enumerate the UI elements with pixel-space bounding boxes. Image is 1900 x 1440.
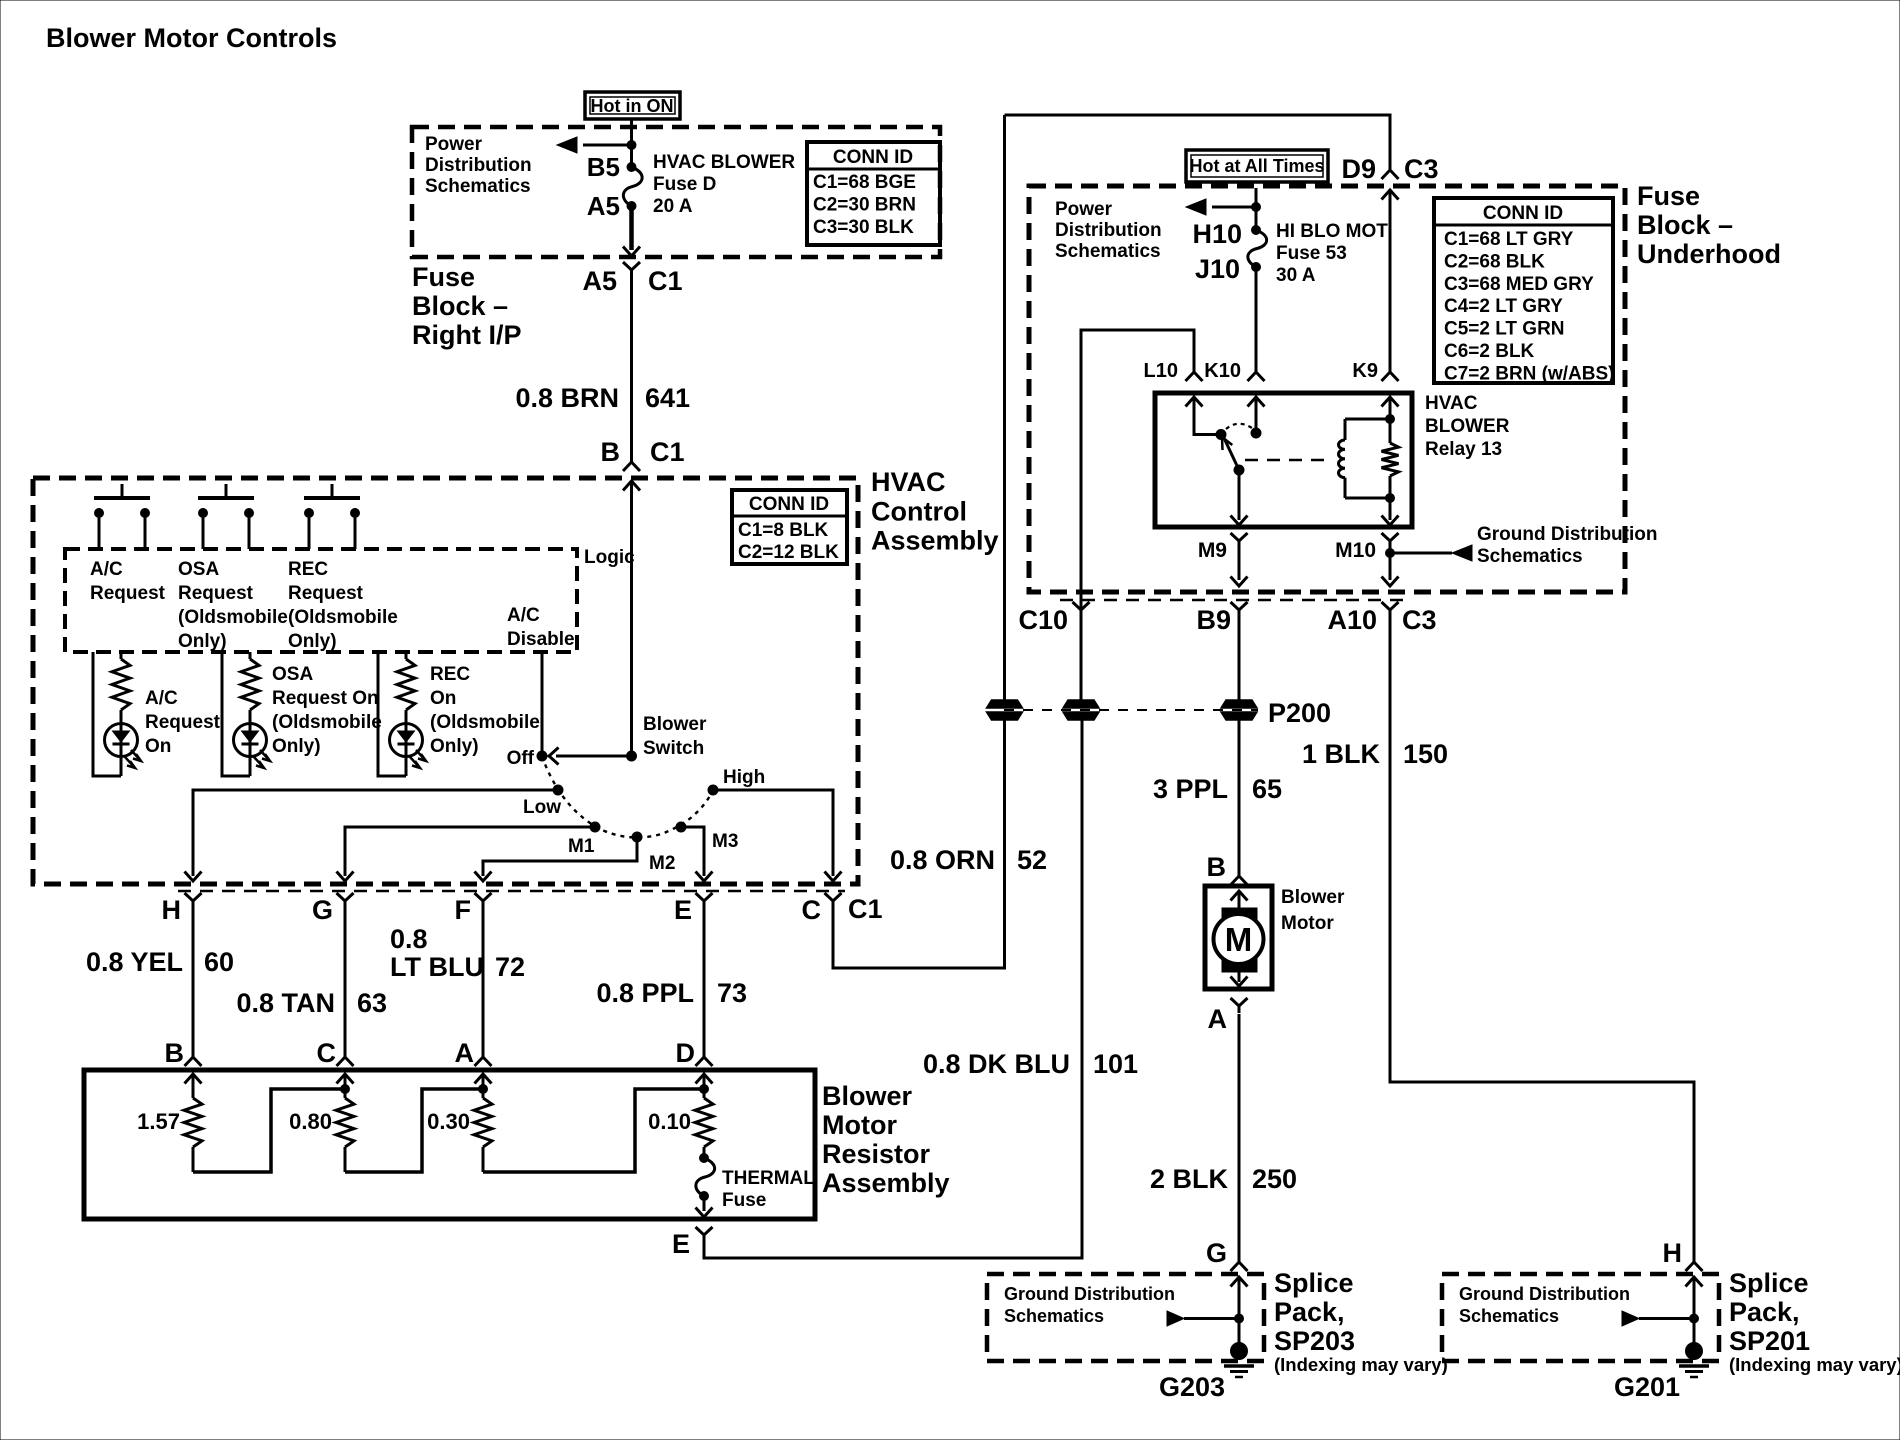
svg-text:0.8 YEL: 0.8 YEL <box>86 947 183 977</box>
svg-text:F: F <box>455 895 472 925</box>
off-page reference arrow (SP201) <box>1639 1317 1694 1320</box>
svg-text:641: 641 <box>645 383 690 413</box>
svg-text:63: 63 <box>357 988 387 1018</box>
relay coil branch top <box>1382 397 1399 407</box>
fuse: HI BLO MOT Fuse 53 30 A <box>1248 230 1267 267</box>
svg-text:1 BLK: 1 BLK <box>1302 739 1381 769</box>
connector pin B (blower motor fork) <box>1231 869 1248 885</box>
male connector arrow at fuse block boundary <box>623 247 640 257</box>
svg-text:A5: A5 <box>587 191 620 221</box>
svg-text:A5: A5 <box>582 266 617 296</box>
resistor element 0.30 ohm <box>474 1074 492 1172</box>
relay pin arrow L10 (inside) <box>1186 397 1203 407</box>
svg-text:(Indexing may vary): (Indexing may vary) <box>1274 1354 1448 1375</box>
svg-text:0.10: 0.10 <box>648 1109 691 1134</box>
svg-text:D: D <box>676 1038 696 1068</box>
wire 0.8 LT BLU circuit 72 (F to resistor A) <box>482 908 485 1057</box>
svg-text:Blower Motor Controls: Blower Motor Controls <box>46 23 337 53</box>
wire: LED branch 3 return <box>378 652 406 776</box>
svg-text:E: E <box>672 1229 690 1259</box>
connector pin G (female fork) <box>337 893 354 908</box>
svg-text:60: 60 <box>204 947 234 977</box>
dashed box: Power Distribution Schematics (Fuse Block - Right I/P) <box>412 127 940 257</box>
blower switch feed junction dot <box>627 751 637 761</box>
svg-text:Ground Distribution: Ground Distribution <box>1459 1284 1630 1304</box>
svg-text:0.30: 0.30 <box>427 1109 470 1134</box>
svg-text:A: A <box>1208 1004 1228 1034</box>
svg-text:C1: C1 <box>650 437 685 467</box>
svg-text:Fuse: Fuse <box>722 1190 766 1211</box>
relay coil suppression resistor <box>1389 419 1392 443</box>
ground G203 <box>1224 1343 1254 1378</box>
wire: Low speed output to pin H <box>193 790 558 876</box>
svg-text:Hot at All Times: Hot at All Times <box>1189 156 1324 176</box>
svg-text:H: H <box>162 895 182 925</box>
svg-text:H: H <box>1663 1238 1683 1268</box>
connector pin M9 (female fork) <box>1231 533 1248 548</box>
connector pin A10 (female fork) <box>1382 602 1399 617</box>
wire: splice SP203 ground lead <box>1238 1277 1241 1345</box>
connector pin M10 (female fork) <box>1382 533 1399 548</box>
wire: switch wiper feed with arrow to Off <box>556 755 632 758</box>
svg-text:C1=68 BGEC2=30 BRNC3=30 BLK: C1=68 BGEC2=30 BRNC3=30 BLK <box>813 172 916 238</box>
wire: A/C Disable to switch Off contact <box>541 652 544 756</box>
svg-text:C3: C3 <box>1402 605 1437 635</box>
connector pin D (resistor assembly, female fork) <box>696 1050 713 1066</box>
switch SW1 (momentary contact) <box>94 484 150 549</box>
svg-text:SplicePack,SP203: SplicePack,SP203 <box>1274 1268 1355 1356</box>
junction dot SP201 <box>1690 1314 1699 1323</box>
wire: M10 to A10 with ground reference tap <box>1389 548 1392 580</box>
svg-text:B: B <box>1207 852 1227 882</box>
wire 0.8 BRN circuit 641 <box>630 277 633 455</box>
switch contact Off <box>537 751 547 761</box>
svg-text:65: 65 <box>1252 774 1282 804</box>
wire: fuse output A5 down to connector <box>629 206 634 250</box>
svg-text:CONN ID: CONN ID <box>833 147 913 168</box>
wire 0.8 TAN circuit 63 (G to resistor C) <box>344 908 347 1057</box>
wire: C3 feed to relay K9 <box>1389 190 1392 371</box>
wire: M9 to B9 <box>1238 548 1241 580</box>
CONN ID table (Fuse Block - Right I/P) <box>807 142 940 245</box>
connector A5/C1 (female fork) <box>623 262 640 277</box>
svg-text:C10: C10 <box>1018 605 1068 635</box>
svg-text:0.80: 0.80 <box>289 1109 332 1134</box>
svg-text:B: B <box>165 1038 185 1068</box>
wire: High output to pin C <box>713 790 833 876</box>
wire: relay common to switch pivot <box>1194 397 1218 435</box>
male connector arrow below HVAC boundary <box>623 481 640 491</box>
connector pin H (female fork) <box>185 893 202 908</box>
wire: series link resistor 0.80 to 0.30 <box>345 1089 483 1172</box>
junction dot at fuse feed <box>1252 203 1261 212</box>
svg-text:G: G <box>312 895 333 925</box>
svg-text:73: 73 <box>717 978 747 1008</box>
wire: Hot in ON feed to fuse terminal B5 <box>630 119 633 167</box>
CONN ID table (Fuse Block - Underhood) <box>1434 198 1613 383</box>
svg-text:72: 72 <box>495 952 525 982</box>
dashed pass-through line P200 <box>1004 709 1258 711</box>
wire: battery feed bus (top) <box>1005 115 1391 164</box>
wire: M1 output to pin G <box>345 827 595 876</box>
connector B/C1 into HVAC Control Assembly (female fork) <box>623 455 640 471</box>
connector pin G (splice fork) <box>1231 1255 1248 1271</box>
svg-text:Schematics: Schematics <box>1004 1306 1104 1326</box>
junction dot SP203 <box>1235 1314 1244 1323</box>
connector pin K9 (relay, female fork) <box>1382 365 1399 381</box>
connector D9/C3 (female fork) <box>1382 163 1399 179</box>
dashed box: Ground Distribution Schematics (SP203) <box>987 1274 1264 1361</box>
fuse: HVAC BLOWER Fuse D 20 A <box>623 167 642 206</box>
svg-text:M10: M10 <box>1335 539 1376 562</box>
svg-text:M1: M1 <box>568 836 595 857</box>
box: HVAC Blower Relay 13 <box>1155 393 1412 527</box>
svg-text:M: M <box>1225 921 1253 958</box>
male connector arrow below underhood boundary <box>1382 190 1399 200</box>
off-page reference arrow (ground distribution) <box>1390 552 1452 555</box>
svg-text:K10: K10 <box>1204 360 1241 382</box>
dashed box: Fuse Block - Underhood <box>1029 186 1625 592</box>
resistor element 0.10 ohm <box>695 1074 713 1157</box>
connector pin F (female fork) <box>475 893 492 908</box>
svg-text:M9: M9 <box>1198 539 1227 562</box>
wire: relay K10 to normally-open contact <box>1255 397 1258 430</box>
blower switch wiper arc (dashed) <box>542 756 713 838</box>
svg-text:E: E <box>674 895 692 925</box>
junction dot A5 <box>627 202 636 211</box>
svg-text:C: C <box>802 895 822 925</box>
wire: series link resistor 1.57 to 0.80 <box>193 1089 345 1172</box>
relay movable contact (wiper arm) <box>1224 438 1239 470</box>
relay switch pivot dot <box>1216 430 1226 440</box>
junction dot coil bottom <box>1386 494 1395 503</box>
svg-text:A: A <box>455 1038 475 1068</box>
connector pin E (female fork) <box>696 893 713 908</box>
switch SW2 (momentary contact) <box>198 484 254 549</box>
connector line (HVAC bottom connector row) <box>178 890 845 893</box>
connector pin H (splice fork) <box>1686 1255 1703 1271</box>
svg-text:L10: L10 <box>1144 360 1178 382</box>
relay contact travel arc (dashed) <box>1226 424 1252 429</box>
relay fixed contact dot <box>1251 428 1261 438</box>
junction dot at resistor A tap <box>479 1085 488 1094</box>
svg-text:G: G <box>1206 1238 1227 1268</box>
off-page reference arrow (SP203) <box>1184 1317 1239 1320</box>
svg-text:3 PPL: 3 PPL <box>1153 774 1228 804</box>
connector pin L10 (relay, female fork) <box>1186 365 1203 381</box>
svg-text:1.57: 1.57 <box>137 1109 180 1134</box>
wire: splice SP201 ground lead <box>1693 1277 1696 1345</box>
dashed box: logic block <box>65 549 577 652</box>
svg-text:0.8 DK BLU: 0.8 DK BLU <box>923 1049 1070 1079</box>
svg-text:C3: C3 <box>1404 154 1439 184</box>
svg-text:Logic: Logic <box>584 547 635 568</box>
wire: LED branch 2 return <box>222 652 250 776</box>
svg-text:G201: G201 <box>1614 1372 1680 1402</box>
wire: logic feed (B/C1 to blower switch) <box>630 481 633 756</box>
svg-text:SplicePack,SP201: SplicePack,SP201 <box>1729 1268 1810 1356</box>
switch SW3 (momentary contact) <box>304 484 360 549</box>
svg-text:Low: Low <box>523 797 561 818</box>
svg-text:B: B <box>601 437 621 467</box>
svg-text:Ground Distribution: Ground Distribution <box>1004 1284 1175 1304</box>
svg-text:THERMAL: THERMAL <box>722 1168 815 1189</box>
connector pin C (resistor assembly, female fork) <box>337 1050 354 1066</box>
wire: fuse 53 feed <box>1255 188 1258 230</box>
junction dot at resistor C tap <box>341 1085 350 1094</box>
wire: fuse 53 output to relay K10 <box>1255 267 1258 371</box>
svg-text:0.8 BRN: 0.8 BRN <box>515 383 619 413</box>
LED indicator OSA Request On <box>234 710 271 776</box>
wire: C10 to P200 segment <box>1080 616 1083 700</box>
connector pin K10 (relay, female fork) <box>1248 365 1265 381</box>
svg-text:CONN ID: CONN ID <box>749 494 829 515</box>
inline connector P200 <box>987 700 1023 720</box>
switch contact M1 <box>590 822 600 832</box>
LED indicator A/C Request On <box>105 710 142 776</box>
svg-text:Off: Off <box>507 748 535 769</box>
svg-text:C: C <box>317 1038 337 1068</box>
svg-text:150: 150 <box>1403 739 1448 769</box>
wire: LED branch 1 return <box>93 652 121 776</box>
junction dot B5 <box>627 141 636 150</box>
svg-text:Schematics: Schematics <box>1477 546 1583 567</box>
svg-text:Ground Distribution: Ground Distribution <box>1477 524 1657 545</box>
connector pin C10 (female fork) <box>1073 602 1090 617</box>
box: Blower Motor Resistor Assembly <box>84 1070 815 1219</box>
wire: coil return to M10 <box>1389 498 1392 520</box>
connector pin C (female fork) <box>825 893 842 908</box>
svg-text:52: 52 <box>1017 845 1047 875</box>
wire 0.8 PPL circuit 73 (E to resistor D) <box>703 908 706 1057</box>
thermal fuse (resistor assembly) <box>700 1154 709 1163</box>
relay pin arrow K10 (inside) <box>1248 397 1265 407</box>
switch contact M2 <box>632 832 642 842</box>
off-page reference arrow (Power Distribution) <box>583 144 632 147</box>
svg-text:H10: H10 <box>1192 219 1242 249</box>
wire 0.8 YEL circuit 60 (H to resistor B) <box>192 908 195 1057</box>
svg-text:Hot in ON: Hot in ON <box>591 96 674 116</box>
label box: Hot at All Times <box>1186 150 1328 182</box>
svg-text:J10: J10 <box>1195 254 1240 284</box>
svg-text:B5: B5 <box>587 152 620 182</box>
svg-text:101: 101 <box>1093 1049 1138 1079</box>
relay wiper contact dot <box>1234 465 1244 475</box>
wire: M3 output to pin E <box>681 827 704 876</box>
wire 1 BLK circuit 150 (A10 to splice pack SP201) <box>1390 616 1694 1262</box>
resistor element 1.57 ohm <box>184 1074 202 1172</box>
dashed box: HVAC Control Assembly <box>33 478 858 884</box>
wire: resistor E output to 0.8 DK BLU riser <box>704 719 1082 1258</box>
connector pin B (resistor assembly, female fork) <box>185 1050 202 1066</box>
wire 2 BLK circuit 250 (motor A to splice pack SP203) <box>1238 1014 1241 1262</box>
wire 0.8 ORN circuit 52 (C to blower relay C10 path) <box>833 719 1005 968</box>
svg-text:0.8 ORN: 0.8 ORN <box>890 845 995 875</box>
wire: series link resistor 0.30 to 0.10 <box>483 1089 704 1172</box>
svg-text:2 BLK: 2 BLK <box>1150 1164 1229 1194</box>
wire 3 PPL circuit 65 (B9 to blower motor) <box>1238 719 1241 876</box>
CONN ID table (HVAC Control Assembly) <box>732 490 847 564</box>
svg-text:0.8 PPL: 0.8 PPL <box>596 978 694 1008</box>
ground G201 <box>1679 1343 1709 1378</box>
wire: relay output to M9 <box>1238 470 1241 520</box>
wire: C10 riser to relay L10 <box>1081 330 1194 616</box>
wire: B9 to P200 segment <box>1238 616 1241 700</box>
relay coil (inductor) <box>1339 440 1346 478</box>
junction dot at resistor D tap <box>700 1085 709 1094</box>
switch contact M3 <box>676 822 686 832</box>
resistor (LED branch 3) <box>405 652 408 659</box>
connector pin A (resistor assembly, female fork) <box>475 1050 492 1066</box>
dashed actuation link (relay) <box>1245 459 1330 461</box>
inline connector P200 <box>1221 700 1257 720</box>
switch contact High <box>708 785 718 795</box>
svg-text:P200: P200 <box>1268 698 1331 728</box>
LED indicator REC On <box>390 710 427 776</box>
svg-text:CONN ID: CONN ID <box>1483 203 1563 224</box>
svg-text:G203: G203 <box>1159 1372 1225 1402</box>
wire: M2 output to pin F <box>483 837 637 876</box>
svg-text:(Indexing may vary): (Indexing may vary) <box>1729 1354 1900 1375</box>
connector pin B9 (female fork) <box>1231 602 1248 617</box>
resistor (LED branch 2) <box>249 652 252 659</box>
connector line (underhood bottom connector row) <box>1060 599 1405 602</box>
label box: Hot in ON <box>585 92 680 119</box>
connector pin A (blower motor fork) <box>1231 998 1248 1013</box>
off-page reference arrow (underhood power distribution) <box>1212 206 1256 209</box>
blower motor M1 <box>1205 886 1272 989</box>
svg-text:0.8 TAN: 0.8 TAN <box>236 988 335 1018</box>
junction dot M10 ground reference <box>1386 549 1395 558</box>
connector pin E (resistor assembly output fork) <box>696 1227 713 1242</box>
inline connector P200 <box>1063 700 1099 720</box>
svg-text:A10: A10 <box>1327 605 1377 635</box>
svg-text:K9: K9 <box>1352 360 1378 382</box>
junction dot H10 <box>1252 226 1261 235</box>
svg-text:M3: M3 <box>712 831 738 852</box>
svg-text:B9: B9 <box>1196 605 1231 635</box>
switch contact Low <box>553 785 563 795</box>
junction dot J10 <box>1252 263 1261 272</box>
svg-text:High: High <box>723 767 765 788</box>
svg-text:C1: C1 <box>848 894 883 924</box>
svg-text:C1=8 BLKC2=12 BLK: C1=8 BLKC2=12 BLK <box>738 520 839 563</box>
resistor element 0.80 ohm <box>336 1074 354 1172</box>
svg-text:250: 250 <box>1252 1164 1297 1194</box>
svg-text:Schematics: Schematics <box>1459 1306 1559 1326</box>
resistor (LED branch 1) <box>120 652 123 659</box>
svg-text:C1: C1 <box>648 266 683 296</box>
svg-text:M2: M2 <box>649 853 675 874</box>
dashed box: Ground Distribution Schematics (SP201) <box>1442 1274 1719 1361</box>
svg-text:D9: D9 <box>1341 154 1376 184</box>
